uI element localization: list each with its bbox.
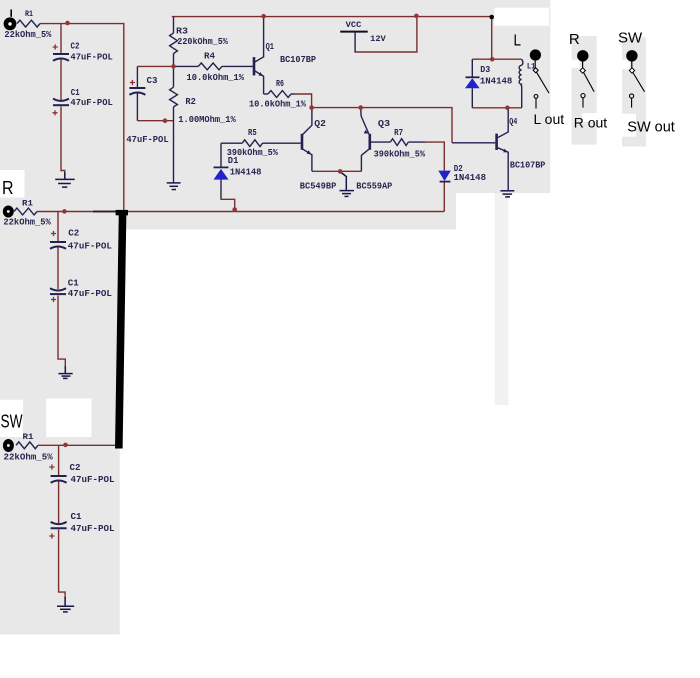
L input stub line [10, 10, 12, 17]
resistor R1 (SW channel) 22kOhm_5% [16, 442, 38, 449]
svg-text:R7: R7 [394, 128, 403, 138]
R switch stem [582, 62, 584, 69]
transistor Q4 BC107BP [495, 134, 498, 150]
VCC power symbol 12V [340, 31, 368, 33]
wire R6 out to Q2 Q3 rail [295, 94, 312, 108]
R switch blade [584, 73, 595, 92]
svg-text:R6: R6 [276, 79, 284, 89]
svg-text:C3: C3 [147, 76, 158, 86]
wire D3 box bottom [472, 107, 521, 109]
svg-text:47uF-POL: 47uF-POL [70, 97, 113, 108]
SW switch dot [626, 50, 637, 61]
svg-text:BC107BP: BC107BP [510, 159, 546, 170]
node R6 Q2 junction [309, 105, 314, 110]
svg-text:47uF-POL: 47uF-POL [68, 240, 112, 251]
ground (R channel) [58, 366, 72, 378]
wire R bottom rail [37, 211, 444, 213]
svg-text:1N4148: 1N4148 [230, 167, 262, 178]
ground (Q4 emitter) [500, 191, 514, 197]
node common emitter junction [338, 169, 343, 174]
wire Q2 Q3 collector rail [312, 108, 452, 143]
node rail Q1 junction [261, 14, 266, 19]
L switch pivot [533, 68, 538, 73]
wire L cap branch [60, 24, 62, 53]
svg-text:47uF-POL: 47uF-POL [70, 51, 113, 62]
svg-text:R1: R1 [25, 10, 33, 19]
svg-text:D3: D3 [480, 65, 490, 75]
svg-text:390kOhm_5%: 390kOhm_5% [374, 149, 426, 159]
wire VCC symbol connection [355, 17, 417, 52]
svg-text:Q1: Q1 [266, 42, 275, 52]
svg-text:Q2: Q2 [314, 119, 326, 129]
R switch pivot [580, 68, 585, 73]
svg-text:R: R [569, 31, 580, 48]
ground (R2 bottom) [167, 183, 181, 190]
resistor R2 1.00MOhm_1% [173, 66, 175, 87]
resistor R1 (L channel) 22kOhm_5% [17, 20, 40, 27]
svg-text:D1: D1 [228, 156, 239, 166]
SW switch out stem [631, 98, 633, 108]
svg-text:12V: 12V [370, 34, 387, 44]
resistor R5 390kOhm_5% [221, 142, 242, 144]
SW switch pivot [629, 68, 634, 73]
svg-text:1.00MOhm_1%: 1.00MOhm_1% [178, 115, 236, 125]
wire between L C2 and C1 [60, 60, 62, 101]
svg-text:C2: C2 [71, 41, 80, 51]
hand annotations [1, 10, 675, 453]
node D1 rail junction [232, 207, 237, 212]
svg-text:10.0kOhm_1%: 10.0kOhm_1% [187, 73, 245, 83]
svg-text:47uF-POL: 47uF-POL [126, 134, 168, 145]
node rail VCC junction [414, 14, 419, 19]
capacitor C1 (L channel) [53, 99, 69, 106]
svg-text:R out: R out [574, 114, 608, 130]
capacitor C1 (R channel) [50, 288, 66, 294]
resistor R6 10.0kOhm_1% [264, 93, 268, 95]
L switch out stem [535, 98, 537, 108]
resistor R3 220kOhm_5% [173, 17, 175, 33]
wire SW input [38, 444, 121, 446]
schematic sheet left column [0, 230, 120, 635]
SW input terminal dot [3, 439, 14, 452]
svg-text:R: R [2, 178, 14, 198]
svg-text:47uF-POL: 47uF-POL [68, 288, 112, 299]
svg-text:R2: R2 [185, 97, 196, 107]
wire R cap branch [57, 212, 59, 242]
capacitor C2 (SW channel) [51, 476, 67, 483]
svg-text:R1: R1 [23, 433, 34, 442]
faint leftover strip below Q4 [495, 193, 509, 405]
svg-text:R4: R4 [204, 51, 216, 61]
svg-text:C2: C2 [70, 463, 81, 473]
wire common emitter [312, 170, 362, 172]
polarity plus marks [49, 44, 135, 538]
svg-text:VCC: VCC [346, 20, 362, 30]
L switch dot [530, 49, 541, 60]
L switch stem [534, 61, 536, 69]
transistor Q2 BC549BP [301, 134, 304, 150]
resistor R7 390kOhm_5% [371, 141, 390, 143]
wire C3 top to R3 junction [137, 65, 173, 67]
svg-text:SW out: SW out [627, 119, 675, 135]
R switch out contact [581, 94, 585, 98]
wire D3 box top [472, 58, 521, 60]
svg-text:C2: C2 [68, 228, 79, 238]
node D3 box top junction [490, 57, 495, 62]
ground (common emitters Q2 Q3) [340, 172, 355, 196]
resistor R1 (R channel) 22kOhm_5% [14, 208, 37, 215]
wire D2 bottom to rail [443, 182, 445, 212]
svg-text:C1: C1 [68, 279, 80, 289]
R switch dot [577, 50, 588, 61]
diode D1 1N4148 [220, 143, 222, 166]
svg-text:C1: C1 [71, 512, 83, 522]
node R3 R4 C3 junction [171, 64, 176, 69]
inductor L1 relay coil [519, 59, 523, 86]
diode D2 1N4148 [440, 181, 451, 183]
SW switch column strip [622, 37, 646, 146]
R switch column strip [572, 36, 597, 145]
svg-text:47uF-POL: 47uF-POL [71, 474, 115, 485]
svg-text:22kOhm_5%: 22kOhm_5% [4, 452, 54, 462]
svg-text:22kOhm_5%: 22kOhm_5% [3, 218, 51, 228]
svg-text:L: L [514, 32, 522, 49]
svg-text:47uF-POL: 47uF-POL [71, 523, 115, 534]
node L R1 junction [65, 21, 70, 26]
wire between R C2 and C1 [57, 248, 59, 290]
thick marker line horizontal [93, 211, 116, 213]
svg-text:L out: L out [534, 111, 565, 127]
R switch out stem [582, 98, 584, 108]
SW switch stem [631, 62, 633, 69]
wire SW C1 to ground [59, 530, 66, 599]
svg-text:BC107BP: BC107BP [280, 54, 316, 65]
node Q3 collector junction [358, 105, 363, 110]
transistor Q3 BC559AP [368, 134, 371, 150]
svg-text:220kOhm_5%: 220kOhm_5% [177, 37, 228, 47]
diode D3 1N4148 [471, 59, 473, 77]
ground (SW channel) [57, 597, 74, 612]
node D3 box bottom Q4 junction [505, 106, 510, 111]
wire L C1 to ground [61, 107, 65, 177]
svg-text:10.0kOhm_1%: 10.0kOhm_1% [249, 99, 307, 109]
capacitor C3 [136, 66, 138, 87]
svg-text:BC559AP: BC559AP [356, 181, 392, 192]
svg-text:Q3: Q3 [378, 119, 390, 129]
SW switch blade [633, 73, 645, 92]
svg-text:Q4: Q4 [509, 117, 518, 127]
svg-text:1N4148: 1N4148 [454, 172, 487, 183]
L switch blade [537, 72, 550, 93]
R input terminal dot [3, 206, 14, 218]
thick marker line vertical [119, 212, 123, 449]
svg-text:BC549BP: BC549BP [300, 181, 337, 192]
node R R1 junction [62, 209, 67, 214]
wire R C1 to ground [58, 296, 65, 368]
svg-text:1N4148: 1N4148 [480, 75, 513, 86]
L input terminal dot [4, 17, 17, 30]
capacitor C1 (SW channel) [51, 522, 67, 528]
svg-text:R3: R3 [176, 27, 188, 37]
node rail end black dot [489, 15, 494, 20]
wire C3 bottom to R2 [137, 120, 173, 122]
node C3 R2 junction [163, 118, 168, 123]
wire between SW C2 and C1 [58, 482, 60, 524]
wire R7 to D2 [425, 142, 444, 171]
schematic sheet top band [0, 0, 550, 193]
capacitor C2 (L channel) [53, 54, 69, 61]
capacitor C2 (R channel) [50, 242, 66, 249]
resistor R4 10.0kOhm_1% [174, 65, 199, 67]
svg-text:SW: SW [1, 412, 23, 432]
schematic sheet lower band [0, 193, 456, 230]
SW switch out contact [630, 94, 634, 98]
wire L input to corner [40, 24, 124, 212]
ground (L channel) [55, 172, 74, 187]
transistor Q1 BC107BP [253, 57, 256, 75]
svg-text:22kOhm_5%: 22kOhm_5% [4, 30, 52, 40]
node SW R1 junction [63, 443, 68, 448]
svg-text:SW: SW [618, 30, 643, 47]
wire SW cap branch [58, 445, 60, 475]
svg-text:R5: R5 [248, 128, 257, 138]
wire VCC top rail [172, 16, 492, 18]
wire rail end down to D3 box [491, 17, 493, 59]
L switch out contact [534, 95, 538, 99]
wire D1 bottom to rail [221, 197, 235, 212]
svg-text:R1: R1 [22, 199, 33, 208]
